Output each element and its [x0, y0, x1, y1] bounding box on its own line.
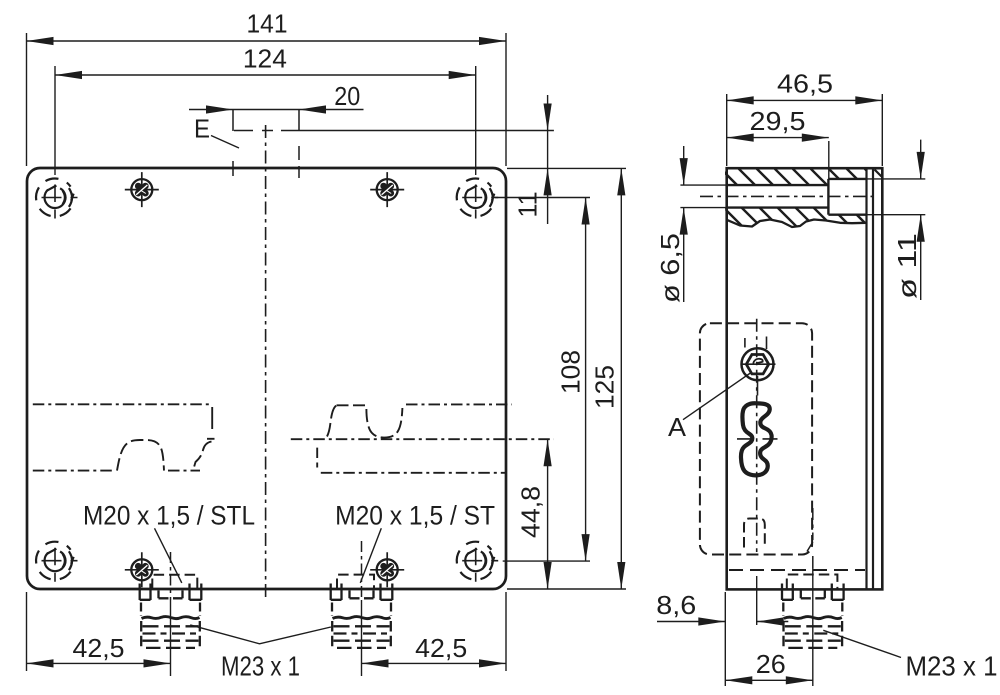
corner hole symbol bottom-left: [36, 542, 77, 582]
dimension 42,5 right: [362, 592, 507, 671]
dimension 8,6: [656, 590, 788, 626]
dimension 26: [725, 592, 813, 686]
corner hole symbol top-left: [36, 179, 77, 219]
dimension 125: [507, 168, 626, 589]
svg-text:ø 6,5: ø 6,5: [655, 233, 685, 303]
wavy break line: [727, 220, 866, 228]
corner hatch stroke: [875, 170, 882, 177]
dimension 141: [27, 9, 507, 167]
svg-text:E: E: [194, 114, 210, 144]
leader M23 side: [823, 630, 901, 657]
internal hidden shape left: [33, 404, 215, 470]
actuator centerline: [756, 319, 758, 552]
A leader: [683, 373, 750, 420]
hole centerline: [700, 195, 876, 197]
side body outline: [727, 168, 883, 589]
internal hidden shape right: [291, 404, 554, 472]
screw bottom-right: [370, 552, 404, 587]
gland right hidden stack: [331, 584, 393, 649]
section hatch: [676, 160, 936, 240]
side gland stack: [782, 584, 844, 649]
dimension dia 11: [867, 140, 926, 300]
dimension 20: [189, 81, 364, 178]
front plate outline: [27, 168, 506, 589]
svg-text:11: 11: [513, 192, 543, 218]
svg-text:29,5: 29,5: [750, 106, 806, 136]
side M23 hole dashes: [787, 575, 838, 590]
screw top-right: [370, 172, 404, 207]
leader ST: [360, 528, 381, 583]
screw bottom-left: [125, 552, 159, 587]
leader STL: [155, 528, 182, 583]
side inner wall dashed: [729, 569, 865, 571]
corner hole symbol bottom-right: [457, 542, 498, 582]
svg-text:26: 26: [756, 649, 786, 679]
dimension dia 6,5: [655, 146, 727, 303]
hidden slot below membrane: [744, 519, 765, 548]
actuator dashed rounded rect: [700, 323, 812, 554]
inner seam line 2: [872, 169, 874, 589]
svg-text:M20 x 1,5 / STL: M20 x 1,5 / STL: [83, 501, 255, 531]
E reference line: [234, 130, 273, 132]
svg-text:141: 141: [247, 9, 288, 39]
E leader: [211, 136, 239, 149]
side gland centerline: [812, 508, 814, 568]
dimension 108: [495, 198, 590, 562]
svg-text:20: 20: [334, 81, 360, 111]
dimension 124: [55, 44, 476, 176]
inner seam line 1: [865, 169, 867, 589]
hole bore lines: [727, 179, 867, 215]
svg-text:125: 125: [590, 365, 620, 409]
svg-text:8,6: 8,6: [656, 590, 696, 620]
svg-text:124: 124: [243, 44, 287, 74]
S-shape cross ticks: [737, 438, 778, 440]
dimension 46,5: [727, 69, 883, 167]
spring membrane S-shape: [741, 403, 772, 475]
dimension 44,8: [516, 439, 552, 589]
gland left centerline: [170, 552, 172, 600]
svg-text:44,8: 44,8: [516, 486, 546, 538]
svg-text:42,5: 42,5: [415, 633, 467, 663]
dimension 11: [507, 95, 626, 224]
svg-text:M23 x 1: M23 x 1: [906, 651, 998, 682]
corner hole symbol top-right: [457, 179, 498, 219]
svg-text:ø 11: ø 11: [892, 233, 922, 299]
gland left hidden stack: [140, 584, 202, 649]
svg-text:46,5: 46,5: [777, 69, 833, 99]
gland right centerline: [361, 541, 363, 600]
hex screw A: [741, 337, 776, 396]
dimension 29,5: [727, 106, 829, 180]
svg-text:108: 108: [556, 350, 586, 394]
dimension 42,5 left: [27, 592, 171, 671]
gland right M20 thread rect: [337, 575, 374, 589]
svg-text:42,5: 42,5: [73, 633, 125, 663]
gland left M20 thread rect: [152, 575, 197, 589]
leader M23 front: [190, 625, 331, 644]
screw top-left: [125, 172, 159, 207]
plate vertical centerline: [265, 125, 267, 598]
svg-text:M20 x 1,5 / ST: M20 x 1,5 / ST: [335, 501, 495, 531]
svg-text:M23 x 1: M23 x 1: [221, 651, 300, 682]
svg-text:A: A: [668, 412, 687, 442]
